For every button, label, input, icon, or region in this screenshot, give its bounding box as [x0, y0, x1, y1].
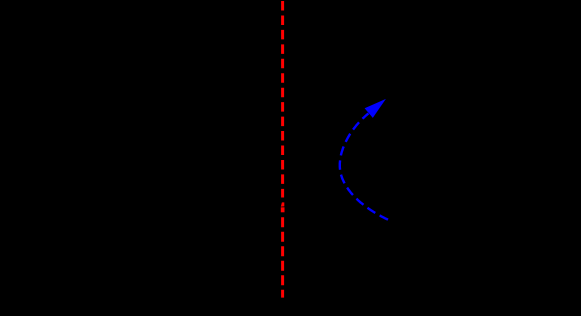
- red wedge at axis midpoint: [281, 202, 285, 206]
- blue dashed rotation arc: [340, 113, 388, 219]
- blue arrowhead: [365, 99, 386, 118]
- red dashed axis, upper segment: [281, 1, 284, 198]
- red blob below wedge: [281, 207, 285, 212]
- red dashed axis, lower segment: [281, 217, 284, 297]
